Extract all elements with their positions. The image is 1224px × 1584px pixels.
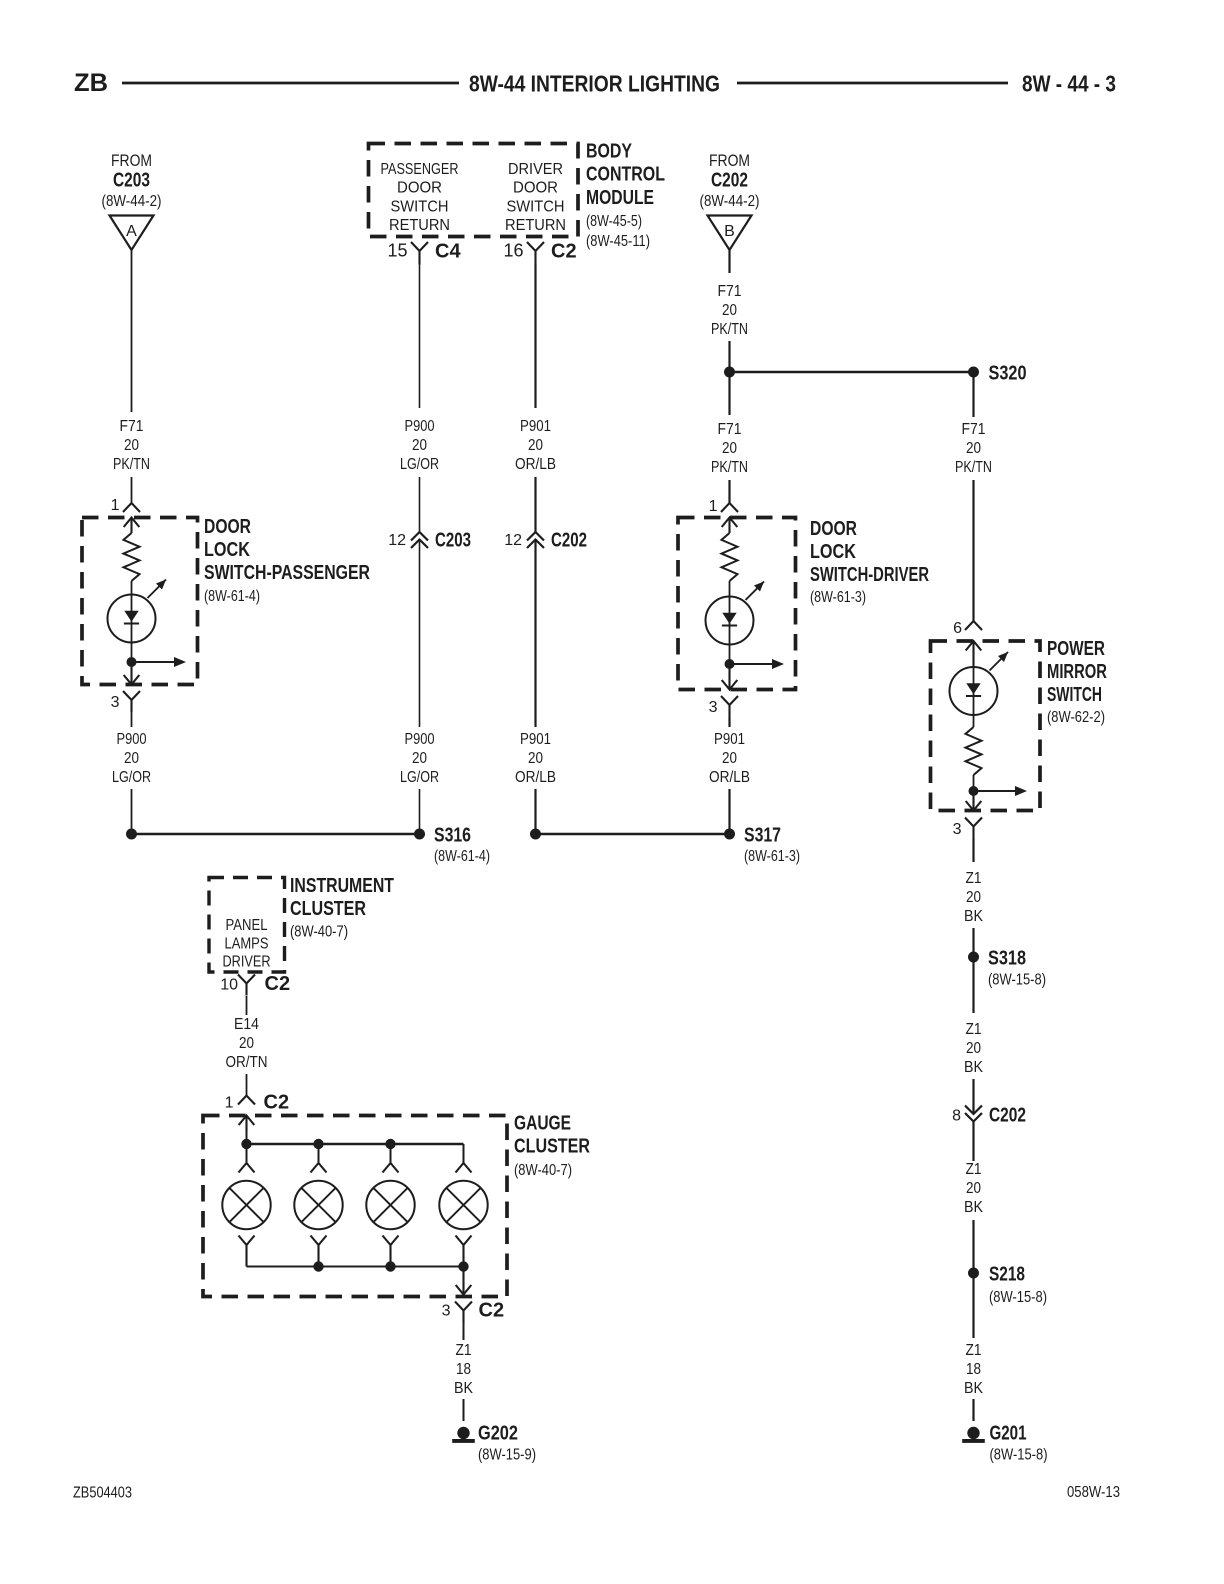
junction dot at S320 branch left xyxy=(724,367,735,378)
wire xyxy=(973,715,975,727)
wire B lower xyxy=(419,540,421,728)
svg-text:(8W-15-8): (8W-15-8) xyxy=(988,972,1046,989)
svg-text:10: 10 xyxy=(220,977,238,994)
wire xyxy=(972,1273,974,1338)
svg-text:C2: C2 xyxy=(551,241,577,263)
off-page connector triangle B xyxy=(708,216,752,251)
gauge cluster box xyxy=(203,1116,507,1297)
entry arrow into passenger switch xyxy=(124,518,140,534)
header rule left xyxy=(122,82,459,85)
wire xyxy=(728,717,730,727)
junction dot lamp 1 xyxy=(241,1139,251,1149)
illumination lamp 2 of gauge cluster xyxy=(318,1144,320,1163)
svg-text:S318: S318 xyxy=(988,948,1026,970)
splice bus wire to S320 xyxy=(730,371,974,374)
wire xyxy=(246,1074,248,1096)
wire xyxy=(728,341,730,372)
svg-text:LAMPS: LAMPS xyxy=(225,936,269,953)
resistor of passenger switch xyxy=(124,533,140,581)
svg-text:SWITCH-PASSENGER: SWITCH-PASSENGER xyxy=(204,562,370,584)
wire xyxy=(534,477,536,532)
svg-text:DOOR: DOOR xyxy=(397,180,442,197)
wire xyxy=(246,996,248,1015)
svg-text:F71: F71 xyxy=(962,421,986,438)
wire B upper xyxy=(419,265,421,409)
svg-text:SWITCH-DRIVER: SWITCH-DRIVER xyxy=(810,564,929,586)
svg-text:(8W-40-7): (8W-40-7) xyxy=(290,924,348,941)
junction dot lamp 2 xyxy=(313,1139,323,1149)
svg-text:INSTRUMENT: INSTRUMENT xyxy=(290,875,394,897)
svg-text:(8W-45-5): (8W-45-5) xyxy=(586,213,642,230)
svg-text:OR/LB: OR/LB xyxy=(709,769,750,786)
svg-text:S316: S316 xyxy=(434,825,471,847)
svg-text:B: B xyxy=(724,223,735,240)
lamp return bus bottom xyxy=(247,1266,464,1268)
exit arrow of passenger switch xyxy=(124,662,140,685)
svg-text:P901: P901 xyxy=(714,731,745,748)
svg-text:C202: C202 xyxy=(551,530,587,552)
switch actuation arrow (driver) xyxy=(746,582,765,601)
svg-text:18: 18 xyxy=(456,1361,471,1378)
svg-text:Z1: Z1 xyxy=(966,1161,982,1178)
inline connector C202 pin 8 xyxy=(965,1106,982,1122)
entry arrow into gauge cluster xyxy=(239,1116,255,1132)
splice S316 xyxy=(414,829,425,840)
svg-text:PK/TN: PK/TN xyxy=(113,456,150,473)
svg-text:20: 20 xyxy=(412,437,427,454)
wiper arrow of driver switch xyxy=(730,663,774,665)
panel lamps driver box xyxy=(209,878,285,973)
svg-text:15: 15 xyxy=(387,241,407,261)
wire xyxy=(463,1323,465,1341)
svg-text:3: 3 xyxy=(709,699,718,716)
switch actuation arrow (power mirror) xyxy=(990,652,1009,671)
svg-text:1: 1 xyxy=(225,1095,234,1112)
svg-text:LG/OR: LG/OR xyxy=(400,456,439,473)
svg-text:(8W-15-8): (8W-15-8) xyxy=(989,1289,1047,1306)
svg-text:(8W-61-3): (8W-61-3) xyxy=(744,848,800,865)
svg-text:3: 3 xyxy=(953,821,962,838)
svg-text:20: 20 xyxy=(528,437,543,454)
ground G202 xyxy=(457,1427,469,1439)
svg-text:BK: BK xyxy=(454,1380,474,1397)
svg-text:20: 20 xyxy=(124,750,139,767)
svg-text:LG/OR: LG/OR xyxy=(112,769,151,786)
svg-text:8: 8 xyxy=(952,1108,961,1125)
svg-text:(8W-40-7): (8W-40-7) xyxy=(514,1162,572,1179)
header rule right xyxy=(737,82,1008,85)
svg-text:P901: P901 xyxy=(520,418,551,435)
svg-text:CLUSTER: CLUSTER xyxy=(514,1136,590,1158)
svg-text:(8W-15-9): (8W-15-9) xyxy=(478,1447,536,1464)
wire xyxy=(534,789,536,834)
lamp feed bus top xyxy=(247,1143,464,1145)
svg-text:Z1: Z1 xyxy=(966,1342,982,1359)
wire xyxy=(972,1399,974,1421)
lamp/LED of power mirror switch xyxy=(950,667,998,715)
svg-text:LOCK: LOCK xyxy=(204,539,250,561)
lamp/LED of passenger switch xyxy=(108,595,156,643)
svg-text:(8W-61-4): (8W-61-4) xyxy=(204,588,260,605)
svg-text:PASSENGER: PASSENGER xyxy=(381,161,459,178)
splice bus wire to S316 xyxy=(132,833,420,836)
svg-text:C203: C203 xyxy=(113,170,150,192)
svg-text:F71: F71 xyxy=(120,418,144,435)
svg-text:FROM: FROM xyxy=(709,152,750,170)
svg-text:RETURN: RETURN xyxy=(389,217,450,234)
svg-text:PANEL: PANEL xyxy=(226,917,268,934)
svg-text:20: 20 xyxy=(722,302,737,319)
svg-text:18: 18 xyxy=(966,1361,981,1378)
svg-text:(8W-15-8): (8W-15-8) xyxy=(990,1447,1048,1464)
svg-text:DRIVER: DRIVER xyxy=(508,161,563,178)
svg-text:F71: F71 xyxy=(718,283,742,300)
splice S318 xyxy=(968,952,979,963)
wire D below junction xyxy=(728,372,730,415)
svg-text:G201: G201 xyxy=(990,1423,1027,1445)
svg-text:P900: P900 xyxy=(117,731,147,748)
inline connector C202 pin 12 xyxy=(527,532,544,548)
wire xyxy=(972,1079,974,1114)
wire xyxy=(131,789,133,834)
wire xyxy=(419,477,421,532)
illumination lamp 4 of gauge cluster xyxy=(463,1144,465,1163)
svg-text:OR/TN: OR/TN xyxy=(226,1054,268,1071)
svg-text:1: 1 xyxy=(709,498,718,515)
svg-text:20: 20 xyxy=(124,437,139,454)
svg-text:P900: P900 xyxy=(405,418,435,435)
svg-text:20: 20 xyxy=(528,750,543,767)
switch actuation arrow (passenger) xyxy=(148,580,167,599)
door lock switch passenger box xyxy=(82,518,198,685)
svg-text:LG/OR: LG/OR xyxy=(400,769,439,786)
junction dot in driver switch xyxy=(725,659,735,669)
exit arrow of driver switch xyxy=(722,664,738,690)
inline connector C203 pin 12 xyxy=(411,532,428,548)
svg-text:DOOR: DOOR xyxy=(513,180,558,197)
svg-text:ZB: ZB xyxy=(74,69,108,97)
junction dot return lamp 2 xyxy=(313,1261,323,1271)
wire D from triangle xyxy=(728,250,730,273)
junction dot in passenger switch xyxy=(127,657,137,667)
wire C upper xyxy=(534,265,536,409)
wire xyxy=(246,1131,248,1144)
svg-text:20: 20 xyxy=(966,889,981,906)
svg-text:Z1: Z1 xyxy=(456,1342,472,1359)
wire xyxy=(131,712,133,727)
wire xyxy=(972,957,974,1013)
wire xyxy=(729,645,731,665)
svg-text:3: 3 xyxy=(442,1303,451,1320)
junction dot left of S317 xyxy=(530,829,541,840)
svg-text:ZB504403: ZB504403 xyxy=(73,1485,132,1502)
svg-text:Z1: Z1 xyxy=(966,1021,982,1038)
entry arrow into power mirror switch xyxy=(966,641,982,667)
illumination lamp 1 of gauge cluster xyxy=(246,1144,248,1163)
door lock switch driver box xyxy=(678,518,796,690)
wire xyxy=(728,480,730,503)
svg-text:(8W-61-3): (8W-61-3) xyxy=(810,589,866,606)
svg-text:3: 3 xyxy=(111,694,120,711)
svg-text:BK: BK xyxy=(964,1059,984,1076)
svg-text:20: 20 xyxy=(966,1180,981,1197)
wire xyxy=(972,480,974,621)
body control module box xyxy=(369,144,579,237)
svg-text:(8W-61-4): (8W-61-4) xyxy=(434,848,490,865)
svg-text:20: 20 xyxy=(722,750,737,767)
svg-text:LOCK: LOCK xyxy=(810,541,856,563)
svg-text:SWITCH: SWITCH xyxy=(1047,684,1102,706)
svg-text:(8W-44-2): (8W-44-2) xyxy=(700,193,760,210)
svg-text:PK/TN: PK/TN xyxy=(711,459,748,476)
svg-text:S218: S218 xyxy=(989,1264,1025,1286)
svg-text:PK/TN: PK/TN xyxy=(955,459,992,476)
entry arrow into driver switch xyxy=(722,518,738,534)
off-page connector triangle A xyxy=(110,216,154,251)
svg-text:C202: C202 xyxy=(711,170,748,192)
splice bus wire to S317 xyxy=(536,833,730,836)
svg-text:G202: G202 xyxy=(478,1423,518,1445)
svg-text:GAUGE: GAUGE xyxy=(514,1113,571,1135)
svg-text:20: 20 xyxy=(412,750,427,767)
svg-text:DOOR: DOOR xyxy=(810,518,857,540)
svg-text:BODY: BODY xyxy=(586,141,633,163)
junction dot return lamp 4 xyxy=(458,1261,468,1271)
wire xyxy=(131,581,133,595)
svg-text:12: 12 xyxy=(388,532,406,549)
wire A down from triangle xyxy=(131,250,133,412)
svg-text:20: 20 xyxy=(966,1040,981,1057)
lamp/LED of driver switch xyxy=(706,597,754,645)
svg-text:OR/LB: OR/LB xyxy=(515,456,556,473)
wire xyxy=(972,1122,974,1162)
svg-text:RETURN: RETURN xyxy=(505,217,566,234)
exit arrow of power mirror switch xyxy=(966,791,982,811)
wire xyxy=(973,775,975,791)
svg-text:C203: C203 xyxy=(435,530,471,552)
svg-text:8W-44 INTERIOR LIGHTING: 8W-44 INTERIOR LIGHTING xyxy=(469,71,720,97)
svg-text:SWITCH: SWITCH xyxy=(391,198,449,215)
svg-text:POWER: POWER xyxy=(1047,638,1105,660)
svg-text:OR/LB: OR/LB xyxy=(515,769,556,786)
svg-text:C2: C2 xyxy=(479,1300,505,1322)
svg-text:(8W-44-2): (8W-44-2) xyxy=(102,193,162,210)
splice S218 xyxy=(968,1268,979,1279)
power mirror switch box xyxy=(931,641,1041,811)
wire xyxy=(972,839,974,863)
junction dot lamp 3 xyxy=(385,1139,395,1149)
junction dot return lamp 3 xyxy=(385,1261,395,1271)
ground G201 xyxy=(967,1427,979,1439)
svg-text:PK/TN: PK/TN xyxy=(711,321,748,338)
svg-text:MODULE: MODULE xyxy=(586,187,654,209)
svg-text:20: 20 xyxy=(966,440,981,457)
svg-text:C202: C202 xyxy=(989,1105,1026,1127)
svg-text:DOOR: DOOR xyxy=(204,516,251,538)
resistor of driver switch xyxy=(722,533,738,581)
wiper arrow of power mirror switch xyxy=(974,790,1017,792)
wire xyxy=(131,477,133,503)
wire xyxy=(728,789,730,834)
splice S317 xyxy=(724,829,735,840)
wire xyxy=(131,643,133,663)
svg-text:CLUSTER: CLUSTER xyxy=(290,898,366,920)
svg-text:058W-13: 058W-13 xyxy=(1067,1484,1120,1501)
wire xyxy=(972,928,974,957)
svg-text:DRIVER: DRIVER xyxy=(223,954,271,971)
svg-text:12: 12 xyxy=(504,532,522,549)
junction dot in power mirror switch xyxy=(969,786,979,796)
svg-text:20: 20 xyxy=(239,1035,254,1052)
svg-text:S317: S317 xyxy=(744,825,781,847)
junction dot left of S316 xyxy=(126,829,137,840)
svg-text:20: 20 xyxy=(722,440,737,457)
svg-text:(8W-62-2): (8W-62-2) xyxy=(1047,709,1105,726)
svg-text:SWITCH: SWITCH xyxy=(507,198,565,215)
svg-text:A: A xyxy=(126,223,137,240)
svg-text:S320: S320 xyxy=(989,363,1027,385)
svg-text:1: 1 xyxy=(111,497,120,514)
svg-text:16: 16 xyxy=(503,241,523,261)
svg-text:BK: BK xyxy=(964,1380,984,1397)
wiper arrow of passenger switch xyxy=(132,661,176,663)
wire E from S320 xyxy=(972,372,974,417)
svg-text:BK: BK xyxy=(964,908,984,925)
svg-text:C2: C2 xyxy=(264,1092,290,1114)
svg-text:Z1: Z1 xyxy=(966,870,982,887)
wire C lower xyxy=(534,540,536,728)
svg-text:(8W-45-11): (8W-45-11) xyxy=(586,233,650,250)
svg-text:P900: P900 xyxy=(405,731,435,748)
resistor of power mirror switch xyxy=(966,727,982,775)
wire xyxy=(729,581,731,597)
svg-text:C4: C4 xyxy=(435,241,461,263)
svg-text:C2: C2 xyxy=(265,973,291,995)
wire xyxy=(419,789,421,834)
svg-text:F71: F71 xyxy=(718,421,742,438)
svg-text:BK: BK xyxy=(964,1199,984,1216)
svg-text:FROM: FROM xyxy=(111,152,152,170)
wire xyxy=(463,1399,465,1421)
splice S320 xyxy=(968,367,979,378)
svg-text:8W - 44 - 3: 8W - 44 - 3 xyxy=(1022,71,1116,97)
svg-text:CONTROL: CONTROL xyxy=(586,164,665,186)
exit arrow of gauge cluster xyxy=(456,1267,472,1295)
wire xyxy=(972,1220,974,1273)
svg-text:P901: P901 xyxy=(520,731,551,748)
svg-text:6: 6 xyxy=(953,620,962,637)
illumination lamp 3 of gauge cluster xyxy=(390,1144,392,1163)
svg-text:MIRROR: MIRROR xyxy=(1047,661,1107,683)
svg-text:E14: E14 xyxy=(234,1016,259,1033)
